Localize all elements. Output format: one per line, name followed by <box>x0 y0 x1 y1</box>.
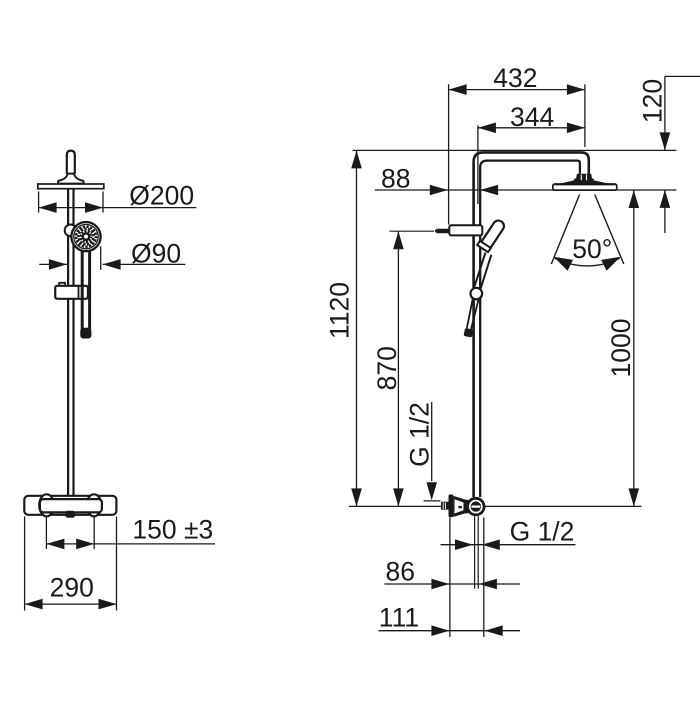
mixer right nut <box>87 494 102 516</box>
valve round body <box>466 497 485 516</box>
111 dimension line <box>379 630 521 632</box>
svg-text:870: 870 <box>372 346 402 390</box>
290 dimension line <box>25 603 117 605</box>
290 arrow right <box>99 599 117 610</box>
mixer body outer <box>24 496 116 515</box>
Ø90 dimension line right segment <box>103 263 186 265</box>
overhead shower disc <box>38 184 104 189</box>
arc arrowhead right <box>601 257 620 271</box>
svg-text:290: 290 <box>50 573 94 603</box>
hand shower face cap (side) <box>477 241 491 252</box>
svg-text:1120: 1120 <box>324 282 354 339</box>
432 left extension line <box>448 84 450 224</box>
86 dimension line <box>384 583 520 585</box>
G 1/2 lower dimension <box>441 544 576 546</box>
Ø200 extension line left <box>38 192 40 213</box>
head rim band <box>553 184 617 190</box>
Ø90 dimension line left segment <box>39 263 67 265</box>
432 dimension line <box>449 89 585 91</box>
Ø200 arrow left <box>39 202 57 213</box>
344 left extension line <box>477 125 479 204</box>
hose end cap <box>463 328 473 338</box>
head connection nut <box>574 174 594 181</box>
Ø200 extension line right <box>102 192 104 213</box>
svg-text:344: 344 <box>510 102 554 132</box>
1120 dimension line <box>356 151 358 506</box>
holder bracket divider <box>78 286 80 299</box>
Ø90 arrow right <box>103 259 121 270</box>
hand shower face ring 2 <box>74 224 98 248</box>
hand shower nozzle ring dashed 2 <box>78 229 93 244</box>
holder bracket body <box>55 286 88 299</box>
120 dimension: top segment <box>665 75 700 77</box>
870 extension line <box>390 230 435 232</box>
150 arrow left <box>46 539 64 550</box>
Ø200 arrow right <box>85 202 103 213</box>
svg-text:88: 88 <box>381 164 410 194</box>
top reference line (1120/120 level) <box>353 149 677 151</box>
holder bracket knob <box>59 283 65 287</box>
svg-text:150 ±3: 150 ±3 <box>132 515 213 545</box>
spray angle arc <box>555 258 620 266</box>
riser pipe left line <box>67 189 69 497</box>
150 dimension line <box>46 543 215 545</box>
tail pipe lines <box>474 516 476 589</box>
86/111 extension lines <box>449 518 451 637</box>
valve block <box>464 500 468 514</box>
Ø90 extension line right <box>100 246 102 269</box>
slider knob <box>65 225 77 237</box>
svg-text:G 1/2: G 1/2 <box>405 402 435 467</box>
hand shower center ring <box>83 233 89 239</box>
hand shower face: outer circle <box>71 222 100 251</box>
arc arrowhead left <box>554 257 573 271</box>
hand shower handle left edge <box>81 245 84 329</box>
svg-text:G 1/2: G 1/2 <box>510 516 575 546</box>
riser+arm tube outer path <box>474 152 589 497</box>
hand shower nozzle ring dashed 3 <box>81 231 91 241</box>
head dome (filled wedge) <box>553 180 617 185</box>
valve cone white interior <box>455 499 464 513</box>
150 extension line right <box>93 517 95 549</box>
hand shower handle right edge <box>88 245 91 329</box>
hand shower end cap <box>81 328 91 338</box>
G 1/2 upper leader <box>431 402 433 481</box>
spray cone right line <box>595 195 624 265</box>
mixer outlet stub <box>66 511 75 517</box>
150 extension line left <box>45 517 47 549</box>
Ø200 dimension line <box>39 207 197 209</box>
hose taper lines <box>467 299 473 329</box>
svg-text:111: 111 <box>379 603 419 633</box>
valve cone dark <box>453 496 466 517</box>
Ø90 arrow left <box>49 259 67 270</box>
holder wall stub <box>435 229 450 234</box>
svg-text:1000: 1000 <box>606 319 636 378</box>
riser+arm tube inner path <box>480 161 580 497</box>
hand shower nozzle ring dashed 1 <box>76 227 96 247</box>
hand shower head (side, tilted) <box>479 219 506 253</box>
870 dimension line <box>397 231 399 506</box>
hose ball joint <box>471 288 483 300</box>
290 arrow left <box>25 599 43 610</box>
svg-text:86: 86 <box>386 557 415 587</box>
290 extension line left <box>24 517 26 611</box>
finial flare <box>58 174 84 184</box>
svg-text:50°: 50° <box>572 234 612 264</box>
344 dimension line <box>478 127 585 129</box>
290 extension line right <box>116 517 118 611</box>
svg-text:Ø90: Ø90 <box>131 238 181 268</box>
120 dimension: bottom segment <box>664 190 666 233</box>
holder bracket (side) <box>449 225 482 235</box>
mixer front plate <box>40 499 102 512</box>
finial rod <box>67 151 75 174</box>
baseline dash inside cone <box>458 506 461 508</box>
svg-text:432: 432 <box>493 63 537 93</box>
valve inlet nipple <box>441 502 449 510</box>
svg-text:Ø200: Ø200 <box>129 181 194 211</box>
432/344 right extension line <box>584 84 586 147</box>
baseline <box>349 505 642 507</box>
nut white slits <box>580 175 582 181</box>
spray cone left line <box>551 195 579 265</box>
1000 dimension line <box>633 190 635 506</box>
svg-text:120: 120 <box>637 79 667 123</box>
88 dimension line + head-bottom reference line <box>375 189 677 191</box>
valve wall flange <box>449 494 454 517</box>
150 arrow right <box>76 539 94 550</box>
mixer left nut <box>39 494 54 516</box>
hand shower handle lines <box>474 253 486 289</box>
riser pipe right line <box>72 189 74 497</box>
